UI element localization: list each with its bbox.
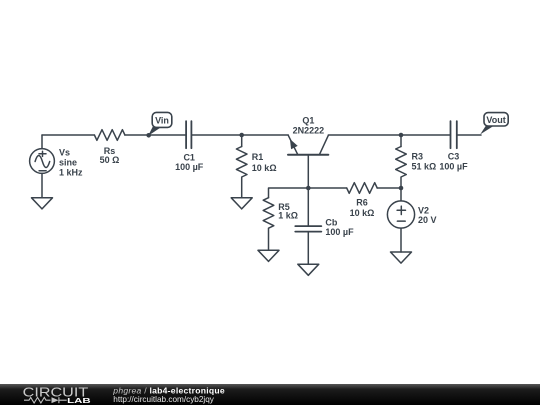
resistor R6 bbox=[347, 183, 401, 194]
transistor Q1 bbox=[288, 135, 328, 188]
node R1 junction bbox=[239, 133, 244, 138]
svg-text:sine: sine bbox=[59, 158, 77, 168]
CircuitLab logo bbox=[23, 384, 92, 405]
svg-text:C3: C3 bbox=[448, 151, 460, 161]
node Vin bbox=[146, 112, 171, 137]
svg-text:Vs: Vs bbox=[59, 148, 70, 158]
resistor R3 bbox=[396, 135, 407, 188]
capacitor Cb bbox=[295, 188, 321, 264]
label Rs 50 Ω bbox=[100, 146, 120, 165]
node base junction bbox=[306, 186, 311, 191]
ground (R1) bbox=[231, 198, 252, 209]
label R5 1 kΩ bbox=[278, 202, 298, 221]
svg-text:C1: C1 bbox=[183, 153, 195, 163]
svg-text:R3: R3 bbox=[412, 151, 424, 161]
svg-text:51 kΩ: 51 kΩ bbox=[412, 161, 437, 171]
wire C1 to Q1 emitter bbox=[191, 134, 288, 136]
ground (R5) bbox=[258, 250, 279, 261]
wire base rail left (R5 corner to base node) bbox=[269, 188, 309, 198]
wire Rs to C1 bbox=[125, 134, 186, 136]
svg-text:http://circuitlab.com/cyb2jqy: http://circuitlab.com/cyb2jqy bbox=[113, 395, 214, 404]
ground (Vs) bbox=[32, 198, 53, 209]
wire base node to R6 bbox=[308, 187, 346, 189]
svg-text:100 µF: 100 µF bbox=[325, 227, 354, 237]
wire Vs to Rs bbox=[42, 134, 94, 136]
label Q1 2N2222 bbox=[293, 115, 325, 135]
label R6 10 kΩ bbox=[350, 197, 375, 218]
svg-text:phgrea / lab4-electronique: phgrea / lab4-electronique bbox=[112, 385, 225, 395]
svg-text:Vin: Vin bbox=[155, 116, 169, 126]
resistor R5 bbox=[263, 198, 274, 251]
credits text bbox=[112, 385, 225, 404]
voltage source Vs bbox=[30, 135, 55, 198]
label R1 10 kΩ bbox=[252, 152, 277, 173]
label Vs sine 1 kHz bbox=[59, 148, 83, 178]
svg-text:1 kΩ: 1 kΩ bbox=[278, 210, 298, 220]
svg-text:Q1: Q1 bbox=[302, 115, 314, 125]
svg-text:Vout: Vout bbox=[486, 115, 505, 125]
resistor R1 bbox=[236, 135, 247, 198]
wire C3 to Vout bbox=[457, 134, 481, 136]
label C1 100 µF bbox=[175, 153, 204, 173]
label Cb 100 µF bbox=[325, 217, 354, 237]
label C3 100 µF bbox=[439, 151, 468, 171]
svg-text:1 kHz: 1 kHz bbox=[59, 168, 83, 178]
svg-text:LAB: LAB bbox=[67, 396, 91, 405]
svg-text:10 kΩ: 10 kΩ bbox=[350, 208, 375, 218]
footer bar bbox=[0, 384, 540, 405]
node Vout bbox=[480, 113, 508, 135]
resistor Rs bbox=[94, 130, 124, 141]
svg-text:50 Ω: 50 Ω bbox=[100, 155, 120, 165]
svg-text:2N2222: 2N2222 bbox=[293, 125, 325, 135]
svg-text:100 µF: 100 µF bbox=[439, 161, 468, 171]
label R3 51 kΩ bbox=[412, 151, 437, 171]
svg-text:R1: R1 bbox=[252, 152, 264, 162]
svg-text:10 kΩ: 10 kΩ bbox=[252, 163, 277, 173]
svg-text:Cb: Cb bbox=[325, 217, 337, 227]
svg-text:R6: R6 bbox=[356, 197, 368, 207]
ground (V2) bbox=[391, 252, 412, 263]
capacitor C3 bbox=[451, 121, 457, 148]
wire Q1 collector to R3 node bbox=[328, 134, 401, 136]
svg-text:20 V: 20 V bbox=[418, 215, 437, 225]
svg-text:100 µF: 100 µF bbox=[175, 162, 204, 172]
capacitor C1 bbox=[186, 121, 191, 148]
ground (Cb) bbox=[298, 264, 319, 275]
label V2 20 V bbox=[418, 205, 437, 225]
voltage source V2 bbox=[387, 188, 414, 252]
node V2 top junction bbox=[399, 186, 404, 191]
svg-text:V2: V2 bbox=[418, 205, 429, 215]
wire R3 node to C3 bbox=[401, 134, 450, 136]
node R3 top junction bbox=[399, 133, 404, 138]
